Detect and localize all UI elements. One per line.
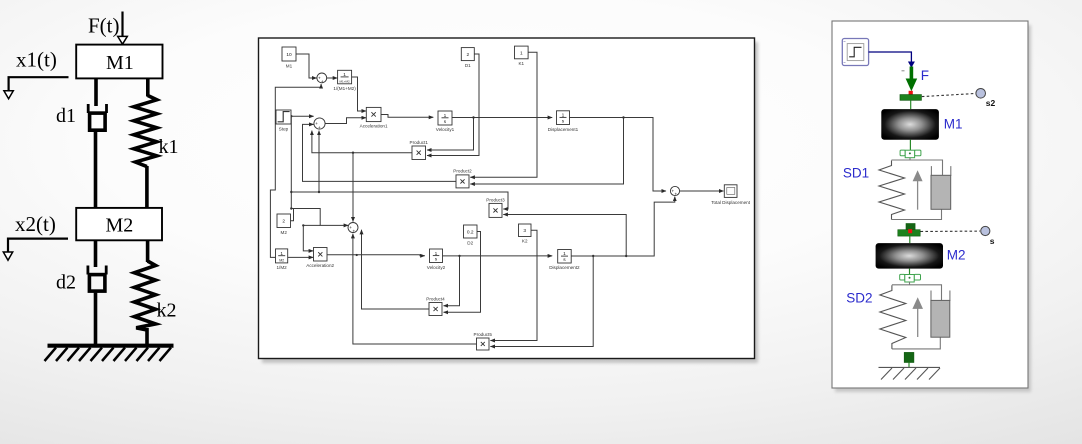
port tick [902, 70, 905, 72]
simulink panel [259, 38, 755, 359]
wire Displacement1 to Sum4 [570, 118, 667, 192]
constant D1 block [461, 48, 474, 61]
svg-text:M2: M2 [947, 248, 966, 263]
integrator Velocity1 block [438, 111, 452, 125]
node SD1 bottom connector [906, 224, 915, 234]
gain 1/(M1+M2) block [338, 70, 352, 84]
svg-text:M1+M2: M1+M2 [340, 79, 350, 83]
svg-text:s2: s2 [986, 98, 996, 108]
svg-text:Product5: Product5 [474, 332, 493, 337]
svg-text:1: 1 [562, 113, 565, 119]
svg-text:2: 2 [466, 52, 469, 58]
wire K2 to Product5 [490, 230, 537, 340]
wire trunk to Sum3 and Acceleration2 [291, 209, 348, 226]
svg-text:3: 3 [523, 228, 526, 234]
svg-text:Total Displacement: Total Displacement [711, 200, 751, 205]
dashed line to sensor s2 [922, 94, 975, 97]
wire M2 const join [291, 209, 294, 221]
wire rod damper d1 to M2 [94, 132, 98, 209]
ground symbol [879, 367, 941, 379]
wire M1 to joint1 [909, 140, 911, 150]
svg-text:0.2: 0.2 [467, 229, 474, 235]
wire rod M2 to damper d2 [94, 240, 98, 267]
x1(t) reference arrow [4, 77, 69, 99]
wire 10/M1 to Sum1 [296, 54, 317, 78]
source Step block [276, 110, 291, 124]
spring k2 [134, 261, 155, 330]
wire Displacement2 branch to Product5 [490, 256, 593, 347]
product Acceleration2 block [314, 248, 328, 262]
wire K1 to Product2 [470, 52, 537, 177]
wire source to force arrow [869, 52, 912, 63]
block name labels [276, 61, 750, 337]
wire Velocity2 branch to Product4 [444, 256, 460, 306]
block value texts [279, 50, 566, 263]
svg-text:d2: d2 [56, 272, 76, 294]
wire Product2 to Sum2 [303, 124, 457, 181]
svg-text:+: + [318, 125, 321, 130]
sensor s2 [976, 89, 986, 99]
svg-text:s: s [990, 236, 995, 246]
wire Displacement2 to Sum4 [571, 197, 675, 256]
svg-text:F: F [921, 68, 929, 83]
sum Sum2 [314, 118, 325, 129]
svg-text:1: 1 [435, 251, 438, 257]
scope Total Displacement block [724, 185, 737, 198]
wire bar to M1 [910, 100, 912, 109]
wire Product5 to Sum3 [353, 234, 477, 344]
wire to ground [908, 363, 910, 368]
svg-text:Step: Step [279, 126, 289, 131]
svg-text:M1: M1 [106, 52, 134, 74]
gain 1/M2 block [276, 249, 288, 263]
svg-text:D1: D1 [465, 63, 471, 68]
joint J1 icon [900, 150, 921, 158]
wire Displacement2 branch to Product3 [503, 215, 626, 257]
wire D2 to Product4 [444, 232, 481, 313]
svg-text:SD2: SD2 [846, 290, 872, 305]
constant K1 block [515, 46, 529, 59]
simscape panel shadow [835, 25, 1031, 392]
wire Sum1 feedback left trunk [270, 87, 321, 257]
constant K2 block [519, 224, 532, 237]
integrator Displacement2 block [558, 250, 572, 264]
wire Velocity2 to Displacement2 [443, 255, 553, 257]
wire rod M2 to spring k2 [146, 240, 150, 262]
product Product5 block [477, 338, 490, 350]
wire Velocity1 to Displacement1 [452, 117, 552, 119]
svg-text:1: 1 [563, 251, 566, 257]
sum Sum4 [670, 186, 679, 195]
wire Step to Sum2 [291, 115, 314, 117]
svg-text:+: + [674, 192, 677, 197]
svg-text:Product3: Product3 [486, 197, 505, 202]
sum Sum1 [317, 73, 327, 83]
svg-text:Velocity2: Velocity2 [427, 265, 446, 270]
sensor s [981, 226, 990, 235]
svg-text:SD1: SD1 [843, 166, 869, 181]
svg-text:10: 10 [286, 52, 292, 58]
LEFT MECHANICAL DIAGRAM [3, 12, 178, 362]
dashed line to sensor s [921, 230, 981, 232]
SD2 damper piston [931, 300, 950, 337]
svg-text:Product4: Product4 [426, 296, 445, 301]
svg-text:1/(M1+M2): 1/(M1+M2) [333, 86, 356, 91]
wire 1/(M1+M2) to Acceleration1 [352, 77, 366, 111]
svg-text:Acceleration2: Acceleration2 [306, 263, 334, 268]
spring k1 [134, 96, 157, 167]
wire Sum2 bottom second input [318, 131, 320, 192]
ground hatching [45, 348, 172, 361]
svg-text:M1: M1 [286, 63, 293, 68]
SD1 arrow [917, 180, 919, 210]
simulink panel shadow [262, 42, 758, 363]
joint J2 icon [900, 274, 921, 282]
spring-damper SD1 [892, 160, 951, 220]
wire trunk to Product3 [291, 192, 508, 209]
wire branch to Acceleration2 [303, 225, 320, 251]
product Product4 block [429, 303, 442, 316]
svg-text:d1: d1 [56, 105, 76, 127]
svg-text:Acceleration1: Acceleration1 [360, 124, 388, 129]
SD2 arrow [917, 307, 919, 337]
SD1 spring [879, 161, 905, 220]
wire Product4 to Sum3 [362, 230, 430, 309]
wire to Sum1 bottom [320, 84, 322, 87]
svg-text:1: 1 [343, 72, 346, 78]
svg-text:+: + [321, 79, 324, 84]
SD1 damper piston [931, 175, 951, 209]
fraction bars [341, 76, 349, 78]
svg-text:k2: k2 [157, 300, 177, 322]
svg-text:D2: D2 [467, 240, 473, 245]
wire Displacement1 branch to Product2 [470, 118, 623, 185]
svg-text:M2: M2 [106, 215, 134, 237]
SD2 spring [880, 285, 906, 349]
force arrow F [910, 67, 914, 81]
svg-text:F(t): F(t) [88, 14, 120, 38]
mass M2 box [76, 208, 162, 240]
force arrow F(t) [118, 12, 128, 45]
svg-text:1/M2: 1/M2 [276, 265, 287, 270]
wire rod spring k1 to M2 [145, 166, 149, 208]
svg-text:x2(t): x2(t) [15, 212, 56, 236]
source Signal Builder block [842, 39, 868, 66]
junction dots [290, 115, 627, 257]
integrator Velocity2 block [430, 249, 443, 263]
connector bar CS1 [900, 95, 921, 101]
wire rod M1 to spring k1 [146, 78, 150, 96]
wire joint1 to SD1 [909, 158, 911, 161]
svg-text:+: + [352, 228, 355, 233]
wire D1 to Product1 [427, 54, 479, 156]
wire connector to M2 [909, 236, 911, 243]
constant M2 block [277, 214, 291, 228]
spring-damper SD2 [892, 285, 950, 349]
svg-text:Displacement1: Displacement1 [548, 127, 579, 132]
svg-text:k1: k1 [159, 136, 179, 158]
svg-text:1: 1 [280, 251, 283, 257]
svg-text:Product1: Product1 [410, 140, 429, 145]
wire Acceleration1 to Velocity1 [381, 115, 433, 118]
wire joint2 to SD2 [909, 282, 911, 285]
x2(t) reference arrow [3, 239, 68, 261]
svg-text:M2: M2 [281, 230, 288, 235]
wire Acceleration2 to Velocity2 [327, 255, 425, 256]
svg-text:1: 1 [520, 50, 523, 56]
damper d2 [88, 266, 106, 292]
sum Sum3 [348, 223, 358, 233]
ground line [48, 344, 174, 348]
svg-text:K1: K1 [518, 61, 524, 66]
product Product2 block [456, 175, 469, 188]
wire rod damper d2 to ground [94, 293, 98, 346]
svg-text:M2: M2 [279, 259, 284, 263]
sum plus signs [315, 76, 677, 234]
wire Sum4 to scope [680, 190, 724, 192]
step icon [278, 112, 290, 122]
svg-text:K2: K2 [522, 239, 528, 244]
integrator Displacement1 block [557, 111, 570, 125]
wire Sum2 to Acceleration1 [325, 118, 366, 124]
wire M2 to joint2 [909, 269, 911, 274]
damper d1 [88, 104, 106, 130]
block icons [278, 77, 568, 346]
wire 1/M2 to Acceleration2 [288, 256, 314, 258]
mass M1 box [76, 45, 162, 79]
wire coupling to Sum3 top [352, 153, 354, 222]
svg-text:Velocity1: Velocity1 [436, 127, 455, 132]
mass M2 body [876, 243, 943, 269]
constant M1 block [282, 47, 296, 61]
wire Velocity1 branch to Product1 [427, 118, 474, 151]
wire rod M1 to damper d1 [94, 78, 98, 106]
product Acceleration1 block [366, 107, 381, 121]
constant D2 block [464, 225, 478, 238]
svg-text:x1(t): x1(t) [16, 48, 57, 72]
svg-text:1: 1 [444, 113, 447, 119]
product Product1 block [412, 146, 426, 160]
svg-text:2: 2 [282, 219, 285, 225]
mass M1 body [881, 109, 939, 140]
node red port [909, 91, 913, 95]
wire trunk Step down [290, 116, 292, 208]
wire rod spring k2 to ground [145, 328, 149, 346]
wire Product1 to Sum2 [312, 131, 412, 153]
simscape panel [832, 21, 1028, 388]
wire Sum1 to 1/(M1+M2) [327, 77, 338, 79]
block frames [276, 46, 738, 350]
product Product3 block [489, 203, 502, 217]
product x marks [371, 112, 375, 116]
svg-text:M1: M1 [944, 117, 963, 132]
svg-text:Product2: Product2 [453, 169, 472, 174]
svg-text:Displacement2: Displacement2 [549, 265, 580, 270]
ground node block [904, 352, 914, 362]
